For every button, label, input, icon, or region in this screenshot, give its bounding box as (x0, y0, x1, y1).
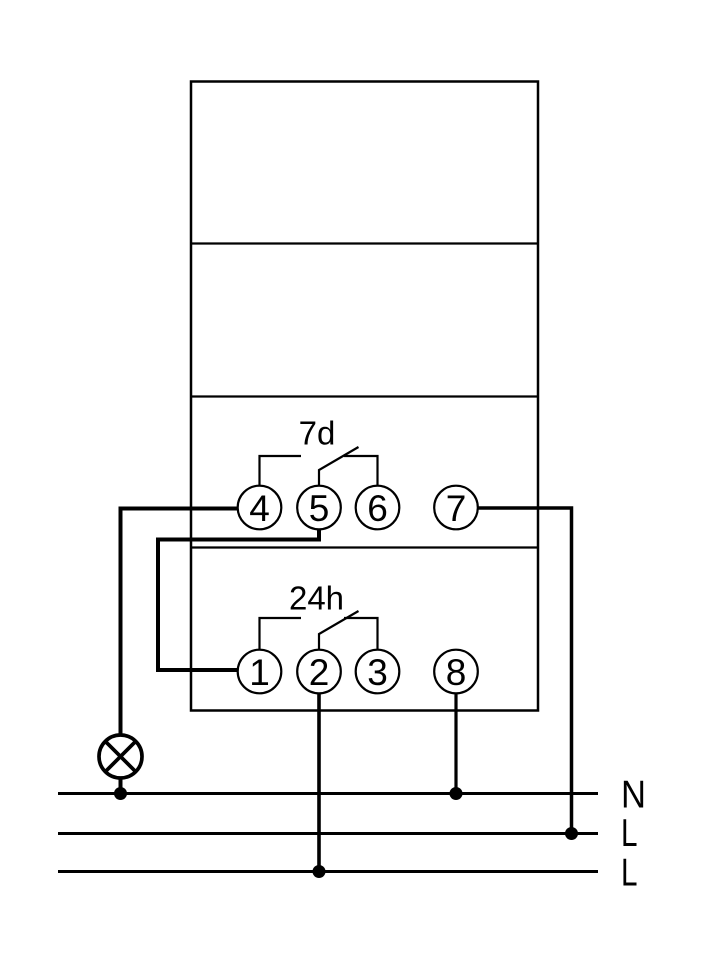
svg-text:4: 4 (249, 488, 270, 529)
svg-text:8: 8 (446, 652, 467, 693)
junction (terminal 7 / L) (565, 827, 578, 840)
terminal 7 (434, 486, 478, 530)
terminal 5 (297, 486, 341, 530)
svg-text:6: 6 (367, 488, 388, 529)
line L (bottom) (58, 870, 598, 873)
switch S2 blade (pole 2) (319, 611, 359, 651)
divider line (top section) (191, 242, 538, 244)
svg-text:7: 7 (446, 488, 467, 529)
wire (terminal 5 to terminal 1) (158, 528, 319, 670)
switch S1 contact 6 bracket (344, 456, 378, 487)
terminal 4 (238, 486, 282, 530)
wire (terminal 2 to line L) (317, 692, 321, 872)
switch S1 contact 4 bracket (260, 456, 302, 487)
terminal 3 (356, 650, 400, 694)
line N (58, 792, 598, 795)
wire (lamp to line N) (119, 777, 123, 794)
junction (terminal 2 / L) (313, 865, 326, 878)
terminal 2 (297, 650, 341, 694)
junction (lamp / N) (114, 787, 127, 800)
svg-text:1: 1 (249, 652, 270, 693)
divider line (middle section) (191, 395, 538, 397)
junction (terminal 8 / N) (450, 787, 463, 800)
svg-text:5: 5 (309, 488, 330, 529)
svg-text:3: 3 (367, 652, 388, 693)
wire (terminal 4 to lamp) (121, 509, 239, 737)
svg-text:N: N (621, 774, 646, 817)
svg-text:2: 2 (309, 652, 330, 693)
svg-text:L: L (621, 852, 638, 895)
switch S2 contact 1 bracket (260, 618, 302, 651)
terminal 1 (238, 650, 282, 694)
lamp E1 (99, 735, 142, 778)
divider line (bottom section) (191, 546, 538, 548)
switch S2 contact 3 bracket (344, 618, 378, 651)
wire (terminal 7 to line L) (477, 508, 572, 834)
terminal 8 (434, 650, 478, 694)
line L (middle) (58, 832, 598, 835)
svg-text:7d: 7d (299, 415, 336, 452)
svg-text:L: L (621, 812, 638, 855)
device outline U1 (time switch body) (191, 82, 538, 711)
svg-text:24h: 24h (289, 580, 344, 617)
terminal 6 (356, 486, 400, 530)
wire (terminal 8 to line N) (454, 692, 457, 794)
switch S1 blade (pole 5) (319, 447, 359, 487)
